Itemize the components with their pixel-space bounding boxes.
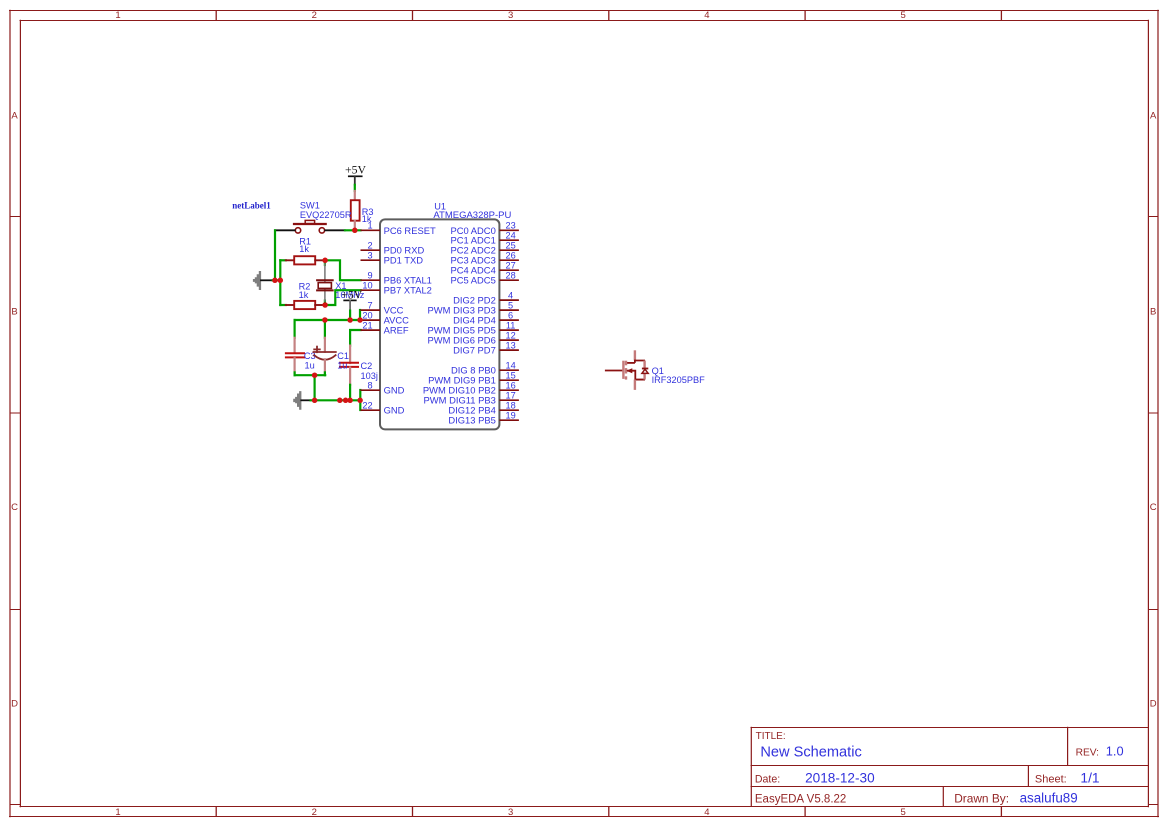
U1 pin 27 line [499,269,519,271]
ruler tick right 3 [1148,608,1159,610]
svg-text:8: 8 [367,380,372,390]
ground symbol bottom [293,391,301,410]
ruler tick bottom 4 [804,807,806,817]
frame outer border bottom [9,816,1159,818]
svg-text:1k: 1k [299,290,309,300]
svg-text:5: 5 [508,300,513,310]
ruler tick top 5 [1000,10,1002,20]
node junction C1 top [322,317,328,323]
Q1 gate lead [605,370,622,372]
U1 pin 11 line [499,329,519,331]
U1 pin 4 line [499,299,519,301]
wire switch right stub [325,229,345,231]
wire R2-right to pin10 [325,290,361,305]
Q1 body diode anode side [643,374,645,380]
ruler tick left 3 [10,608,21,610]
svg-text:17: 17 [505,390,515,400]
svg-text:B: B [11,307,17,318]
U1 pin 26 line [499,259,519,261]
wire switch-left down to ground row [274,230,276,280]
svg-text:Sheet:: Sheet: [1035,773,1067,785]
ruler tick top 3 [608,10,610,20]
U1 pin 3 line [361,259,381,261]
U1 pin 16 line [499,389,519,391]
Q1 source arrow [626,368,632,373]
svg-text:GND: GND [384,385,405,396]
U1 pin 23 line [499,229,519,231]
ruler tick left 1 [10,216,21,218]
ruler tick right 2 [1148,412,1159,414]
svg-text:23: 23 [505,221,515,231]
svg-text:27: 27 [505,260,515,270]
ruler tick right 1 [1148,216,1159,218]
crystal X1 [317,260,365,305]
ruler tick bottom 2 [412,807,414,817]
ruler tick bottom 5 [1000,807,1002,817]
frame inner border left [19,20,21,807]
svg-text:11: 11 [506,320,516,330]
U1 pin 8 line [361,389,381,391]
U1 pin 12 line [499,339,519,341]
ruler tick top 1 [215,10,217,20]
svg-text:6: 6 [508,310,513,320]
svg-text:10: 10 [362,280,372,290]
node junction gnd b [343,398,349,404]
svg-text:EVQ22705R: EVQ22705R [300,210,352,220]
svg-text:14: 14 [505,360,515,370]
ruler tick bottom 3 [608,807,610,817]
svg-text:12: 12 [505,330,515,340]
Q1 drain top link [635,361,645,363]
U1 pin 13 line [499,349,519,351]
svg-text:28: 28 [505,270,515,280]
svg-text:PC5 ADC5: PC5 ADC5 [450,275,495,286]
Q1 drain lead [634,350,636,360]
title block row divider 1 [751,765,1150,767]
wire ground left stub [261,279,273,281]
wire R1 left green stub [280,259,286,261]
U1 pin 15 line [499,379,519,381]
svg-text:1u: 1u [305,361,315,371]
svg-text:1/1: 1/1 [1080,770,1099,785]
svg-text:13: 13 [505,340,515,350]
wire R1-left to R2-left vertical [279,260,281,305]
wire gnd jog pin8 pin22 [359,390,361,410]
svg-text:24: 24 [505,230,515,240]
Q1 channel segment 2 [625,368,627,373]
wire gnd net horizontal [311,399,361,401]
svg-text:B: B [1150,307,1156,318]
transistor Q1 IRF3205PBF [605,350,705,390]
frame outer border top [9,10,1159,12]
svg-text:1: 1 [367,221,372,231]
capacitor C1 polarized [314,320,349,375]
node junction gnd a [337,398,343,404]
resistor R1 [286,237,324,265]
node junction gnd C2 [347,398,353,404]
title block REV divider [1067,727,1069,766]
svg-text:7: 7 [367,300,372,310]
svg-text:1: 1 [115,10,120,21]
svg-text:C: C [11,502,18,513]
title block left edge [750,727,752,807]
svg-text:TITLE:: TITLE: [756,731,786,742]
wire reset net to pin1 [345,229,361,231]
svg-text:EasyEDA V5.8.22: EasyEDA V5.8.22 [755,793,846,805]
node junction VCC jog [357,317,363,323]
Q1 gate bar [622,361,624,379]
svg-text:Date:: Date: [755,773,780,785]
wire ground bottom stub [301,399,310,401]
svg-text:New Schematic: New Schematic [760,745,861,761]
+5V power flag at AVCC [342,289,363,320]
U1 pin 24 line [499,239,519,241]
ruler tick left 4 [10,803,21,805]
U1 pin 7 line [361,309,381,311]
ground symbol left [253,271,261,290]
U1 pin 22 line [361,409,381,411]
capacitor C2 [340,346,378,401]
svg-text:1k: 1k [299,244,309,254]
switch SW1 [294,200,352,233]
title block row divider 2 [751,786,1150,788]
node junction gnd caps [312,398,318,404]
svg-text:4: 4 [704,10,709,21]
svg-text:PB7 XTAL2: PB7 XTAL2 [384,285,432,296]
svg-text:GND: GND [384,405,405,416]
Q1 body diode triangle [642,369,648,373]
svg-text:2: 2 [312,807,317,818]
node junction caps bottom [312,372,318,378]
Q1 channel segment 3 [625,376,627,379]
IC U1 ATMEGA328P-PU [380,201,511,429]
svg-text:25: 25 [505,240,515,250]
U1 pin 19 line [499,419,519,421]
ruler tick right 4 [1148,803,1159,805]
svg-text:netLabel1: netLabel1 [232,200,271,210]
node junction +5V AVCC [347,317,353,323]
svg-text:D: D [1150,699,1157,710]
svg-text:DIG13 PB5: DIG13 PB5 [448,415,495,426]
svg-text:1.0: 1.0 [1106,743,1124,758]
svg-text:AREF: AREF [384,325,409,336]
Q1 bottom link to drain column [635,379,645,381]
svg-text:3: 3 [367,250,372,260]
frame inner border right [1147,20,1149,807]
CIRCUIT [232,163,378,411]
frame outer border right [1157,10,1159,817]
svg-text:21: 21 [362,320,372,330]
svg-text:20: 20 [362,310,372,320]
U1 pin 28 line [499,279,519,281]
svg-text:+5V: +5V [342,289,363,301]
U1 pin 20 line [361,319,380,321]
Q1 channel segment 1 [625,361,627,366]
ruler tick bottom 1 [215,807,217,817]
Q1 body diode cathode bar [642,368,648,370]
wire AREF to C2 [350,330,361,346]
svg-text:19: 19 [505,410,515,420]
U1 pin 9 line [361,279,381,281]
frame inner border bottom [20,806,1150,808]
svg-text:+5V: +5V [345,163,367,177]
U1 pin 2 line [361,249,381,251]
svg-text:2: 2 [367,240,372,250]
wire VCC jog pin7 to AVCC [359,310,361,320]
svg-text:18: 18 [505,400,515,410]
svg-text:PC6 RESET: PC6 RESET [384,225,436,236]
node junction gnd wireA [272,278,278,284]
svg-text:3: 3 [508,807,513,818]
svg-text:D: D [11,699,18,710]
U1 pin 1 line [361,229,381,231]
U1 body [380,219,499,429]
title block DrawnBy divider [942,787,944,807]
Q1 source link [627,371,645,380]
svg-text:5: 5 [901,807,906,818]
capacitor C3 [286,320,316,375]
node junction R3/pin1 [352,228,358,234]
node junction gnd wireB [278,278,284,284]
svg-text:4: 4 [704,807,709,818]
svg-text:DIG7 PD7: DIG7 PD7 [453,345,496,356]
+5V power flag top [345,163,367,185]
svg-text:15: 15 [505,370,515,380]
resistor R2 [286,282,324,310]
svg-text:2: 2 [312,10,317,21]
Q1 drain channel link [626,362,635,364]
wire switch left stub [275,229,295,231]
title block top edge [751,727,1150,729]
svg-text:A: A [11,111,18,122]
wire R2 left green stub [280,304,286,306]
svg-text:C: C [1150,502,1157,513]
svg-text:PD1 TXD: PD1 TXD [384,255,424,266]
U1 pin 21 line [361,329,381,331]
node junction R1-right/X1 [322,258,328,264]
ruler tick top 2 [412,10,414,20]
svg-text:9: 9 [367,270,372,280]
svg-text:Drawn By:: Drawn By: [954,791,1009,805]
svg-text:asalufu89: asalufu89 [1020,790,1078,805]
svg-text:2018-12-30: 2018-12-30 [805,770,875,785]
Q1 body diode cathode side [643,361,645,369]
svg-text:C2: C2 [361,361,373,371]
U1 pin 5 line [499,309,519,311]
svg-text:3: 3 [508,10,513,21]
svg-text:1u: 1u [337,361,347,371]
U1 pin 25 line [499,249,519,251]
ruler tick left 2 [10,412,21,414]
svg-text:4: 4 [508,290,513,300]
wire R1-right to pin9 [325,260,361,280]
svg-text:26: 26 [505,250,515,260]
svg-text:22: 22 [362,400,372,410]
svg-text:1: 1 [115,807,120,818]
U1 pin 14 line [499,369,519,371]
wire AVCC net horizontal [295,319,361,321]
wire +5V to R3 [354,185,356,191]
frame inner border top [20,20,1150,22]
wire caps bottom to gnd row [314,375,316,400]
svg-text:16: 16 [505,380,515,390]
title block Sheet divider [1027,766,1029,787]
Q1 source lead [634,380,636,390]
svg-text:5: 5 [901,10,906,21]
U1 pin 6 line [499,319,519,321]
wire ground stub green [273,279,282,281]
U1 pin 17 line [499,399,519,401]
svg-text:IRF3205PBF: IRF3205PBF [652,375,705,385]
wire C3 C1 bottom joint [295,374,326,376]
node junction R2-right/X1 [322,302,328,308]
ruler tick top 4 [804,10,806,20]
svg-text:A: A [1150,111,1157,122]
node junction gnd jog [357,398,363,404]
U1 pin 18 line [499,409,519,411]
svg-text:REV:: REV: [1076,747,1099,758]
frame outer border left [9,10,11,817]
resistor R3 [351,191,374,230]
U1 pin 10 line [361,289,381,291]
